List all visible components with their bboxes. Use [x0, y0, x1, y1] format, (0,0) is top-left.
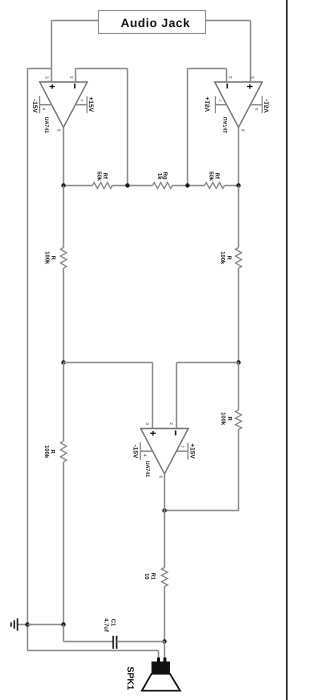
U1 plus input [50, 84, 55, 89]
svg-text:Rg: Rg [162, 172, 169, 180]
audio jack J1 [99, 11, 206, 34]
wire [238, 363, 240, 411]
svg-text:+15V: +15V [189, 443, 197, 459]
resistor Rg 1k (middle) [153, 183, 173, 189]
wire [63, 462, 65, 625]
svg-text:3: 3 [145, 422, 150, 425]
wire U1 pin2 feedback [75, 69, 77, 83]
wire output to speaker [164, 642, 166, 660]
svg-text:6: 6 [158, 476, 163, 479]
svg-text:UA741: UA741 [223, 117, 229, 134]
node U3- tap [236, 360, 240, 364]
resistor R 100k (left upper) [61, 248, 67, 269]
wire ground row [28, 624, 64, 626]
node U2 out [236, 183, 240, 187]
wire jack left output [52, 20, 99, 22]
node ground junction [25, 622, 29, 626]
svg-text:+15V: +15V [204, 97, 212, 113]
wire to U3 pin3 [64, 362, 153, 364]
node [61, 622, 65, 626]
svg-text:2: 2 [169, 422, 174, 425]
svg-text:+15V: +15V [88, 97, 96, 113]
node U3+ tap [61, 360, 65, 364]
node U3 out [162, 508, 166, 512]
wire left rail to speaker bottom [27, 625, 29, 651]
svg-text:R: R [50, 256, 57, 261]
capacitor C1 4.7uf [112, 636, 114, 649]
svg-text:C1: C1 [110, 619, 117, 627]
U2 negative supply -15V pin 4 [251, 104, 262, 106]
node U1 out [61, 183, 65, 187]
wire resistor row [64, 185, 93, 187]
svg-text:1k: 1k [157, 173, 164, 180]
U2 minus input [226, 84, 228, 89]
wire to U3 pin2 [177, 362, 239, 364]
U2 plus input [247, 84, 252, 89]
wire [164, 587, 166, 642]
svg-text:4: 4 [42, 108, 47, 111]
svg-text:7: 7 [180, 446, 185, 449]
U1 negative supply -15V pin 4 [40, 104, 52, 106]
svg-text:6: 6 [241, 129, 246, 132]
node output [162, 639, 166, 643]
svg-text:R: R [49, 450, 56, 455]
op-amp U3 UA741 [141, 429, 189, 474]
svg-text:50k: 50k [208, 171, 215, 181]
wire U2 output [238, 128, 240, 186]
svg-text:Audio Jack: Audio Jack [121, 16, 191, 30]
U1 positive supply +15V pin 7 [76, 104, 87, 106]
op-amp U1 UA741 [40, 82, 88, 127]
svg-text:3: 3 [44, 76, 49, 79]
svg-text:2: 2 [69, 76, 74, 79]
svg-text:4: 4 [254, 108, 259, 111]
svg-text:-15V: -15V [31, 99, 39, 113]
svg-text:Rf: Rf [102, 173, 109, 179]
svg-text:3: 3 [250, 76, 255, 79]
svg-text:7: 7 [218, 99, 223, 102]
svg-text:100k: 100k [43, 445, 50, 458]
U3 minus input [175, 431, 177, 436]
svg-text:-15V: -15V [263, 99, 271, 113]
wire left chain [63, 186, 65, 248]
svg-text:4: 4 [142, 454, 147, 457]
U3 positive supply +15V pin 7 [177, 450, 188, 452]
svg-text:7: 7 [79, 99, 84, 102]
svg-text:2: 2 [228, 76, 233, 79]
wire feedback to U3 out [238, 429, 240, 510]
svg-text:UA741: UA741 [43, 117, 49, 134]
svg-text:-15V: -15V [132, 445, 140, 459]
wire U2 pin2 feedback [226, 69, 228, 83]
svg-text:R: R [227, 417, 234, 422]
speaker SPK1 [157, 658, 160, 662]
svg-text:Rf: Rf [214, 173, 221, 179]
U1 minus input [74, 84, 76, 89]
svg-text:UA741: UA741 [144, 461, 150, 478]
resistor R 100k (left lower) [61, 441, 67, 462]
wire [63, 363, 65, 442]
resistor R 100k (right upper) [236, 248, 242, 269]
resistor Rf 50k (right) [205, 183, 225, 189]
U3 negative supply -15V pin 4 [140, 450, 152, 452]
svg-text:R1: R1 [150, 573, 157, 581]
wire [238, 268, 240, 362]
wire [112, 185, 152, 187]
resistor R 100k (feedback) [236, 410, 242, 429]
svg-text:6: 6 [56, 129, 61, 132]
wire [173, 185, 205, 187]
svg-text:100k: 100k [44, 251, 51, 264]
resistor Rf 50k (left) [92, 183, 112, 189]
wire jack right output [206, 20, 251, 22]
U3 plus input [150, 431, 155, 436]
right page border [286, 0, 288, 700]
svg-text:100k: 100k [220, 251, 227, 264]
wire U1 output [63, 128, 65, 186]
svg-text:4.7uf: 4.7uf [103, 618, 110, 632]
wire left rail to jack-left node [28, 68, 52, 70]
resistor R1 10 [162, 568, 168, 587]
wire U3 output [164, 474, 166, 568]
svg-text:50k: 50k [96, 171, 103, 181]
svg-text:100k: 100k [220, 412, 227, 425]
wire [225, 185, 239, 187]
node N3 [185, 183, 189, 187]
svg-text:R: R [226, 256, 233, 261]
wire left rail vertical [27, 69, 29, 625]
ground [18, 624, 28, 626]
op-amp U2 UA741 [215, 82, 263, 127]
svg-text:SPK1: SPK1 [126, 667, 136, 691]
wire right chain [238, 186, 240, 248]
wire cap to output node [117, 641, 165, 643]
wire [63, 268, 65, 362]
U2 positive supply +15V pin 7 [215, 104, 226, 106]
wire jog to capacitor [63, 625, 65, 642]
node N2 [125, 183, 129, 187]
svg-text:10: 10 [144, 573, 151, 579]
